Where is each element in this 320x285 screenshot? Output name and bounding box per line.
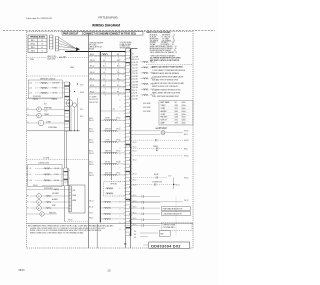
svg-text:PK-14: PK-14 [90, 91, 94, 93]
svg-text:J3-2 WH: J3-2 WH [132, 82, 138, 84]
svg-text:L1: L1 [41, 40, 43, 42]
svg-text:WH-10: WH-10 [89, 131, 94, 133]
svg-text:J1-2 WH: J1-2 WH [132, 56, 138, 58]
svg-text:L-30: L-30 [29, 82, 32, 84]
svg-text:CONTROL SW: CONTROL SW [38, 162, 49, 164]
svg-text:DEFROST TIMER: DEFROST TIMER [163, 224, 176, 226]
svg-text:BU-14: BU-14 [89, 206, 93, 208]
svg-text:L-2: L-2 [103, 60, 105, 62]
svg-text:DEF HTR: DEF HTR [53, 82, 60, 84]
svg-text:LID SW: LID SW [54, 168, 60, 170]
svg-text:N-2: N-2 [103, 85, 106, 87]
svg-text:WH-10: WH-10 [116, 150, 121, 152]
svg-text:GND WIRE: GND WIRE [143, 107, 151, 109]
svg-text:BK-12: BK-12 [89, 140, 93, 142]
svg-text:DR SW: DR SW [105, 161, 111, 163]
svg-text:OR-14: OR-14 [90, 72, 95, 74]
svg-text:DR SW: DR SW [54, 180, 60, 182]
svg-text:OF CORD,: OF CORD, [89, 44, 98, 46]
svg-text:L-14: L-14 [112, 108, 115, 110]
svg-text:SWITCH: SWITCH [161, 120, 167, 122]
svg-text:GND: GND [70, 67, 75, 69]
svg-text:GN-4: GN-4 [31, 50, 35, 52]
svg-text:BK-12: BK-12 [89, 118, 93, 120]
svg-text:GY-8: GY-8 [80, 85, 84, 87]
svg-text:RD-3: RD-3 [31, 47, 35, 49]
svg-text:1. DISCONNECT POWER BEFORE SE: 1. DISCONNECT POWER BEFORE SERVICE [152, 70, 185, 72]
svg-text:L-10: L-10 [29, 180, 32, 182]
svg-text:WH-10: WH-10 [89, 153, 94, 155]
svg-text:OR-12: OR-12 [184, 200, 189, 202]
svg-text:L-7: L-7 [103, 91, 105, 93]
svg-text:RD: RD [26, 180, 28, 182]
svg-text:CONNECT IN TRUE SEQ: CONNECT IN TRUE SEQ [109, 34, 136, 36]
svg-text:ICE MKR: ICE MKR [52, 193, 59, 195]
svg-text:BU-14: BU-14 [90, 78, 94, 80]
svg-text:J1-5 BU: J1-5 BU [132, 65, 137, 67]
svg-text:FRT18G6PWD: FRT18G6PWD [98, 16, 117, 20]
svg-text:BK-12: BK-12 [133, 212, 137, 214]
svg-text:120V 60HZ: 120V 60HZ [47, 58, 56, 60]
svg-text:Publication No. 5995592741: Publication No. 5995592741 [26, 17, 53, 20]
svg-text:BK-12: BK-12 [133, 151, 137, 153]
svg-text:L3: L3 [27, 114, 29, 116]
svg-text:WH-12: WH-12 [184, 177, 189, 179]
svg-text:GY-12: GY-12 [89, 212, 93, 214]
svg-text:BK-12: BK-12 [89, 129, 93, 131]
svg-text:WH-2: WH-2 [31, 43, 35, 45]
svg-text:PWR CIRCUIT: PWR CIRCUIT [63, 34, 79, 36]
svg-text:BK-12: BK-12 [184, 134, 188, 136]
svg-text:MOTOR CKT: MOTOR CKT [89, 99, 98, 101]
svg-text:DOOR SW: DOOR SW [33, 96, 41, 98]
svg-text:WH-10: WH-10 [89, 164, 94, 166]
svg-text:BK-12: BK-12 [89, 173, 93, 175]
svg-text:LT SW: LT SW [54, 174, 59, 176]
svg-text:J5-1 GN: J5-1 GN [132, 96, 138, 98]
svg-text:BK-12: BK-12 [133, 142, 137, 144]
svg-text:BK-12: BK-12 [133, 207, 137, 209]
svg-text:COND FAN: COND FAN [48, 126, 57, 129]
svg-text:2970: 2970 [175, 123, 179, 125]
svg-text:BK-12: BK-12 [133, 159, 137, 161]
svg-text:5308: 5308 [175, 117, 179, 119]
svg-text:PK-14: PK-14 [89, 217, 93, 219]
svg-text:COMP: COMP [161, 114, 166, 116]
svg-text:DISPENSER: DISPENSER [44, 188, 54, 190]
svg-text:WH-10: WH-10 [116, 118, 121, 120]
svg-text:L-8: L-8 [29, 168, 31, 170]
svg-text:J4-2 BL: J4-2 BL [132, 93, 137, 95]
svg-text:PK: PK [27, 202, 29, 204]
svg-text:RD-14: RD-14 [90, 66, 95, 68]
svg-text:COMP: COMP [46, 122, 51, 124]
svg-text:WH-10: WH-10 [33, 185, 38, 187]
svg-text:BK: BK [26, 168, 28, 170]
svg-text:OR: OR [26, 174, 28, 176]
svg-text:ICE: ICE [73, 190, 76, 192]
svg-text:IN USE: IN USE [89, 48, 95, 50]
svg-text:BL BLUE . . . . . . YL YELLO: BL BLUE . . . . . . YL YELLOW . . 14 [150, 36, 175, 38]
svg-text:L-5: L-5 [103, 78, 105, 80]
svg-text:BK-8: BK-8 [44, 104, 47, 106]
svg-text:GN: GN [134, 234, 136, 236]
svg-text:BR: BR [27, 196, 29, 198]
svg-text:TN: TN [27, 208, 29, 210]
svg-text:NOTES: DISCONNECT POWER SOURC: NOTES: DISCONNECT POWER SOURCE [152, 67, 183, 69]
svg-text:WH-10: WH-10 [89, 142, 94, 144]
svg-text:J3-3 RD: J3-3 RD [132, 84, 138, 86]
svg-text:2183: 2183 [175, 105, 179, 107]
svg-text:BK-12: BK-12 [133, 184, 137, 186]
svg-text:BK-14: BK-14 [90, 54, 94, 56]
svg-text:LT GRN: LT GRN [43, 158, 50, 160]
svg-text:COLORS GIVEN: COLORS GIVEN [120, 42, 132, 44]
svg-text:WIRING DIAGRAM: WIRING DIAGRAM [92, 23, 120, 27]
svg-text:J5-2 RD: J5-2 RD [132, 98, 138, 100]
svg-text:REF: REF [160, 233, 163, 235]
svg-text:BK-12: BK-12 [133, 218, 137, 220]
svg-text:J4-1 YL: J4-1 YL [132, 90, 137, 92]
svg-text:WH-8: WH-8 [44, 111, 48, 113]
svg-text:WH-12: WH-12 [184, 156, 189, 158]
svg-text:DEF SW: DEF SW [105, 128, 111, 130]
svg-text:L2: L2 [41, 47, 43, 49]
svg-text:13: 13 [107, 269, 111, 273]
svg-text:GRN: GRN [59, 57, 62, 59]
svg-text:GN: GN [134, 237, 136, 239]
svg-text:DISP: DISP [52, 205, 56, 207]
svg-text:L-32: L-32 [29, 92, 32, 94]
svg-text:5303: 5303 [175, 111, 179, 113]
svg-text:CONN. IN TRUE: CONN. IN TRUE [120, 44, 132, 46]
svg-text:L2: L2 [27, 108, 29, 110]
svg-text:59/13: 59/13 [19, 269, 26, 272]
svg-text:J2-1 GY: J2-1 GY [132, 68, 138, 70]
svg-text:BK-14 L1: BK-14 L1 [132, 59, 138, 61]
svg-text:WH-10: WH-10 [89, 175, 94, 177]
svg-text:DD603094 D02: DD603094 D02 [151, 244, 181, 248]
svg-text:J3-1 BK: J3-1 BK [132, 79, 137, 81]
svg-text:WH-12: WH-12 [184, 131, 189, 133]
svg-text:BK-8: BK-8 [80, 109, 83, 111]
svg-text:GY-14: GY-14 [90, 85, 94, 87]
svg-text:J2-2 PK: J2-2 PK [132, 70, 137, 72]
svg-text:5304: 5304 [175, 114, 179, 116]
svg-text:WH-14: WH-14 [90, 60, 95, 62]
svg-text:2162: 2162 [175, 120, 179, 122]
svg-text:WH-10: WH-10 [68, 220, 73, 222]
svg-text:WH-10: WH-10 [89, 120, 94, 122]
svg-text:L-31: L-31 [29, 87, 32, 89]
svg-text:BK-12: BK-12 [89, 162, 93, 164]
svg-text:BK-12: BK-12 [133, 146, 137, 148]
svg-text:GND WIRE: GND WIRE [143, 103, 151, 105]
svg-text:RD-8: RD-8 [80, 116, 83, 118]
svg-text:PK PINK . . . . . . RD RED .: PK PINK . . . . . . RD RED . . . . . 18 [150, 42, 174, 44]
svg-text:OR-12: OR-12 [89, 200, 94, 202]
svg-text:COMPRESSOR: COMPRESSOR [152, 181, 162, 183]
svg-text:SEE NOTE 3: SEE NOTE 3 [89, 102, 98, 104]
svg-text:L4: L4 [27, 122, 29, 124]
svg-text:42: 42 [132, 54, 134, 56]
svg-text:BK-12: BK-12 [133, 224, 137, 226]
svg-text:TO TIMER: TO TIMER [89, 97, 97, 99]
svg-text:BK-12: BK-12 [133, 195, 137, 197]
svg-text:CONNECT AS SHOWN: CONNECT AS SHOWN [84, 33, 109, 36]
svg-text:HI LIM: HI LIM [53, 92, 58, 94]
svg-text:WH-10: WH-10 [116, 172, 121, 174]
svg-text:RECOMMENDED FIELD WIRING MUST: RECOMMENDED FIELD WIRING MUST COMPLY WIT… [28, 224, 114, 227]
svg-text:GND WIRE: GND WIRE [143, 111, 151, 113]
svg-text:WH-8: WH-8 [80, 92, 84, 94]
svg-text:GN: GN [134, 231, 136, 233]
svg-text:OL-P: OL-P [168, 176, 171, 178]
svg-text:BK-12: BK-12 [133, 174, 137, 176]
svg-text:J2-4 BR: J2-4 BR [132, 76, 138, 78]
svg-text:L-4: L-4 [103, 72, 105, 74]
svg-text:WIRE COLOR CODE LEGEND: WIRE COLOR CODE LEGEND [147, 32, 172, 34]
svg-text:L-9: L-9 [29, 174, 31, 176]
svg-text:BK-12: BK-12 [89, 151, 93, 153]
svg-text:L-1: L-1 [103, 54, 105, 56]
svg-text:N-1: N-1 [103, 66, 106, 68]
svg-text:BK-12: BK-12 [133, 180, 137, 182]
svg-text:J1-4 OR: J1-4 OR [132, 62, 139, 64]
svg-text:2271: 2271 [175, 108, 179, 110]
svg-text:J3-4 GN: J3-4 GN [132, 87, 138, 89]
svg-text:BK-12: BK-12 [176, 184, 180, 186]
svg-text:BK-1: BK-1 [31, 40, 35, 42]
svg-text:J2-3 TN: J2-3 TN [132, 73, 137, 75]
svg-text:OPTION: OPTION [110, 184, 117, 186]
svg-text:BK-12: BK-12 [184, 148, 188, 150]
svg-text:WH-12: WH-12 [184, 140, 189, 142]
svg-text:LT SW: LT SW [105, 139, 110, 141]
svg-text:SERVICE WORK FOR CONTINUITY.: SERVICE WORK FOR CONTINUITY. [152, 86, 179, 88]
